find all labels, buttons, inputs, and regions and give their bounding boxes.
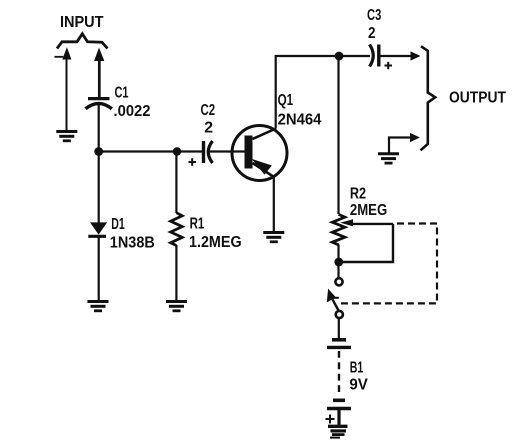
wire rail to C3 <box>339 55 370 57</box>
svg-text:C1: C1 <box>115 85 129 102</box>
switch S1 <box>327 278 343 318</box>
svg-text:2: 2 <box>204 120 213 137</box>
input left terminal arrow <box>55 49 71 130</box>
R2 wiper arrow <box>342 220 393 226</box>
wire rail down to R2 <box>337 56 339 214</box>
transistor Q1 <box>232 126 287 181</box>
svg-text:D1: D1 <box>111 216 125 233</box>
wire C3 to output arrow <box>379 55 412 57</box>
output bottom arrow <box>410 133 420 142</box>
capacitor C1 <box>86 99 112 152</box>
wire C2 to base <box>210 150 245 152</box>
wiper return wire <box>339 224 393 262</box>
output brace <box>421 46 436 150</box>
ground (D1) <box>88 302 109 311</box>
svg-text:2MEG: 2MEG <box>350 202 387 219</box>
ground (output) <box>378 154 399 163</box>
wire collector up <box>276 56 339 129</box>
svg-text:C3: C3 <box>367 7 381 24</box>
svg-text:9V: 9V <box>349 377 368 394</box>
input right terminal arrow <box>95 49 104 97</box>
input brace <box>57 34 108 49</box>
ground (battery) <box>328 426 348 437</box>
output bottom arm wire <box>389 138 412 153</box>
wire D1 branch <box>98 152 100 224</box>
svg-text:OUTPUT: OUTPUT <box>449 90 506 107</box>
capacitor C3 <box>370 45 379 67</box>
svg-text:R1: R1 <box>190 216 205 233</box>
wire base rail (horizontal) <box>99 150 203 152</box>
node junction C (collector rail) <box>335 52 344 61</box>
battery polarity plus <box>326 415 335 424</box>
wire emitter down <box>273 177 275 231</box>
node junction A (C1 bottom) <box>94 147 103 156</box>
svg-text:1.2MEG: 1.2MEG <box>189 234 242 251</box>
dashed gang link (R2 to S1) <box>341 224 437 304</box>
C2 polarity plus <box>189 158 197 166</box>
svg-text:Q1: Q1 <box>278 92 294 109</box>
svg-text:2N464: 2N464 <box>278 112 322 129</box>
ground (emitter) <box>263 233 284 242</box>
ground (input left) <box>56 132 77 141</box>
ground (R1) <box>166 302 187 311</box>
diode D1 <box>88 223 106 300</box>
battery B1 <box>327 340 351 425</box>
svg-text:INPUT: INPUT <box>60 14 104 31</box>
wire switch to battery <box>338 317 340 338</box>
resistor R1 <box>171 213 183 246</box>
svg-text:1N38B: 1N38B <box>110 235 155 252</box>
capacitor C2 <box>204 141 213 163</box>
resistor R2 (potentiometer) <box>332 214 345 244</box>
svg-text:.0022: .0022 <box>114 103 151 120</box>
C3 polarity plus <box>385 62 393 69</box>
node junction B (R1 top) <box>173 147 181 155</box>
svg-text:R2: R2 <box>350 186 366 203</box>
svg-text:C2: C2 <box>201 102 216 119</box>
wire R2 bottom to switch <box>337 245 339 278</box>
output top arrow <box>411 51 421 60</box>
wire R1 branch <box>175 152 177 214</box>
wire R1 to ground <box>175 245 177 300</box>
svg-text:B1: B1 <box>350 360 364 377</box>
svg-text:2: 2 <box>368 25 376 42</box>
node junction D (wiper tie) <box>334 258 343 267</box>
